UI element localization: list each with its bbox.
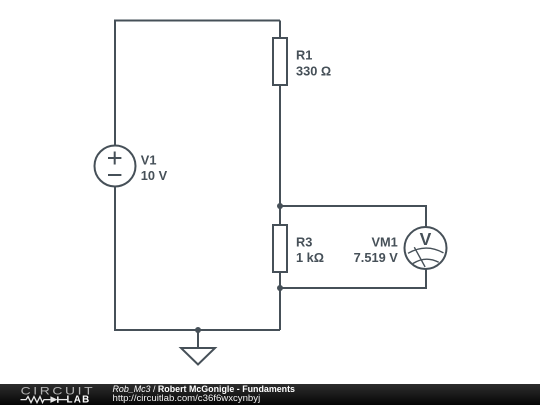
svg-text:V1: V1 xyxy=(141,153,157,168)
svg-text:R3: R3 xyxy=(296,235,312,250)
svg-text:7.519 V: 7.519 V xyxy=(354,250,399,265)
svg-text:LAB: LAB xyxy=(67,395,91,405)
svg-text:330 Ω: 330 Ω xyxy=(296,63,331,78)
svg-text:10 V: 10 V xyxy=(141,168,168,183)
svg-text:V: V xyxy=(420,229,432,249)
svg-text:1 kΩ: 1 kΩ xyxy=(296,250,324,265)
svg-text:R1: R1 xyxy=(296,48,312,63)
svg-text:http://circuitlab.com/c36f6wxc: http://circuitlab.com/c36f6wxcynbyj xyxy=(113,393,261,404)
svg-text:VM1: VM1 xyxy=(371,235,397,250)
